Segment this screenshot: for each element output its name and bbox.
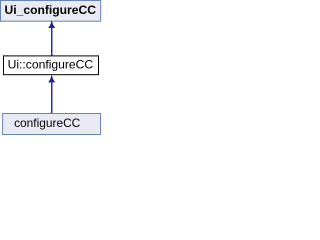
node Ui_configureCC (current class box)	[1, 1, 101, 22]
inheritance arrow: configureCC to Ui::configureCC	[49, 76, 55, 114]
inheritance arrow: Ui::configureCC to Ui_configureCC	[49, 21, 55, 55]
node Ui::configureCC box	[4, 56, 99, 75]
svg-text:Ui_configureCC: Ui_configureCC	[5, 3, 97, 17]
svg-text:Ui::configureCC: Ui::configureCC	[8, 58, 94, 72]
svg-text:configureCC: configureCC	[14, 116, 81, 130]
node configureCC box	[3, 114, 101, 135]
